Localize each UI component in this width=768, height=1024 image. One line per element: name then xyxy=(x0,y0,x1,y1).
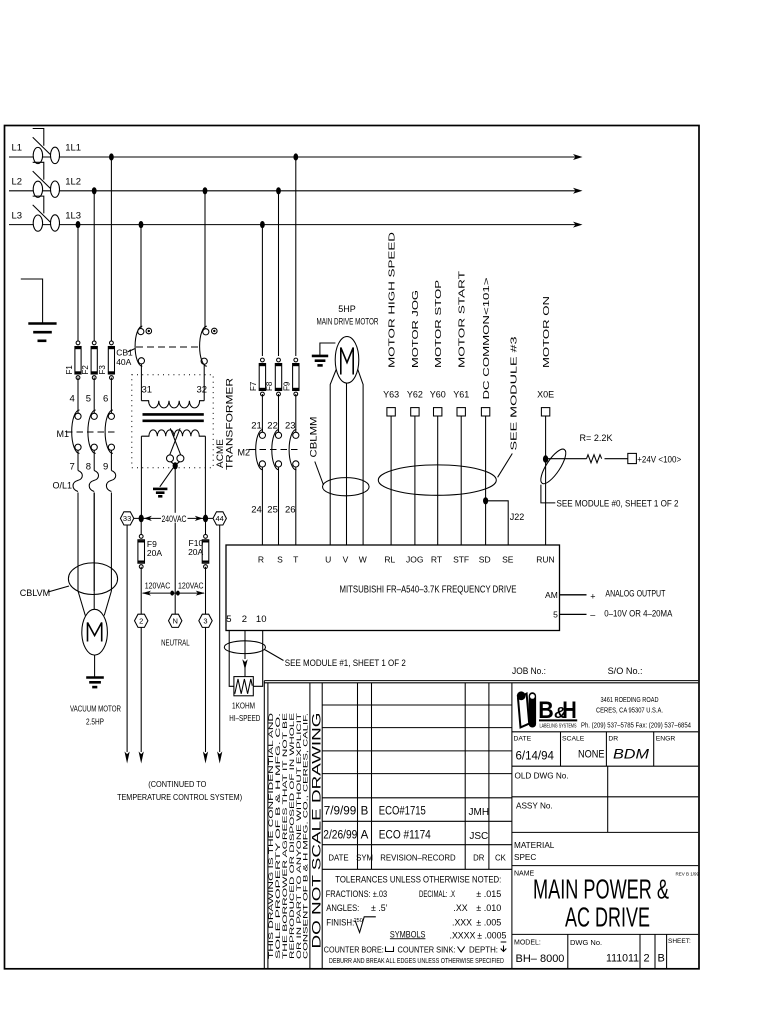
svg-text:SEE MODULE #1, SHEET 1 OF 2: SEE MODULE #1, SHEET 1 OF 2 xyxy=(285,658,406,668)
svg-text:1KOHM: 1KOHM xyxy=(232,701,255,711)
wire L2 to F8 xyxy=(278,191,280,356)
ground vacuum motor xyxy=(86,676,104,679)
transformer center tap cross xyxy=(170,428,181,455)
svg-text:SHEET:: SHEET: xyxy=(668,938,691,945)
contactor M2 pole xyxy=(259,432,265,438)
wire L3 to F1 xyxy=(77,225,79,341)
wire control terminal to drive xyxy=(414,416,416,545)
svg-text:5: 5 xyxy=(226,614,231,625)
title block frame xyxy=(264,680,698,682)
svg-text:0–10V OR 4–20MA: 0–10V OR 4–20MA xyxy=(604,609,672,619)
wire neutral from center tap xyxy=(174,468,176,614)
svg-text:CK: CK xyxy=(495,853,507,862)
svg-text:DR: DR xyxy=(473,853,485,862)
potentiometer 1KOHM HI-SPEED xyxy=(234,677,253,696)
wire M2 to drive R xyxy=(261,467,263,545)
disconnect switch pole L2 xyxy=(33,181,42,197)
arrow L2 line end xyxy=(573,188,583,194)
wire fuse to M2 xyxy=(295,394,297,432)
wire 5 analog output xyxy=(560,613,587,615)
wire node 2 down xyxy=(140,627,142,752)
junction dot (205,190) xyxy=(203,187,208,194)
wire leader see module 1 xyxy=(265,650,284,661)
svg-text:MOTOR JOG: MOTOR JOG xyxy=(411,290,420,368)
svg-text:± .015: ± .015 xyxy=(476,889,501,899)
wire motor V lead xyxy=(346,383,348,545)
disconnect switch pole L1 xyxy=(33,147,42,163)
svg-text:ASSY No.: ASSY No. xyxy=(516,802,553,811)
node N hexagon xyxy=(169,614,182,627)
svg-text:JMH: JMH xyxy=(469,807,490,818)
junction dot (78,224) xyxy=(76,221,81,228)
svg-text:BH– 8000: BH– 8000 xyxy=(516,953,565,965)
title block NAME row xyxy=(512,865,698,867)
svg-text:MOTOR HIGH SPEED: MOTOR HIGH SPEED xyxy=(387,232,396,368)
svg-text:AM: AM xyxy=(545,590,558,600)
svg-text:U: U xyxy=(325,555,331,565)
svg-text:NEUTRAL: NEUTRAL xyxy=(161,637,190,647)
arrow continued wire 3 xyxy=(203,752,208,764)
wire control terminal to drive xyxy=(437,416,439,545)
svg-text:T: T xyxy=(293,555,298,565)
svg-text:REV B 1/99: REV B 1/99 xyxy=(676,872,700,877)
wire bus to F10 xyxy=(205,518,207,534)
wire phase line L1 xyxy=(9,156,576,158)
terminal square X0E xyxy=(541,408,549,416)
svg-text:B: B xyxy=(658,953,665,965)
terminal square Y63 xyxy=(387,408,395,416)
wire M1 link (dashed) xyxy=(66,431,116,433)
junction dot (94,190) xyxy=(92,187,97,194)
svg-text:20A: 20A xyxy=(188,547,203,557)
svg-text:250: 250 xyxy=(354,918,363,924)
wire L3 to F7 xyxy=(261,225,263,356)
wire L2 to F2 xyxy=(93,191,95,341)
disconnect switch pole L3 xyxy=(33,215,42,231)
junction dot bus left xyxy=(139,515,144,523)
svg-text:V: V xyxy=(343,555,349,565)
svg-text:2/26/99: 2/26/99 xyxy=(323,829,357,841)
svg-text:TEMPERATURE CONTROL SYSTEM): TEMPERATURE CONTROL SYSTEM) xyxy=(117,792,242,802)
terminal square +24V xyxy=(628,453,637,463)
svg-text:MAIN DRIVE MOTOR: MAIN DRIVE MOTOR xyxy=(317,316,379,326)
svg-text:F3: F3 xyxy=(98,365,107,375)
wire F10 to node 3 xyxy=(205,567,207,615)
svg-text:3461 ROEDING ROAD: 3461 ROEDING ROAD xyxy=(601,695,659,704)
svg-text:± .010: ± .010 xyxy=(476,903,501,913)
svg-text:1L1: 1L1 xyxy=(65,143,81,154)
svg-text:BDM: BDM xyxy=(613,747,650,762)
wire AM analog output xyxy=(560,594,587,596)
svg-text:MOTOR START: MOTOR START xyxy=(457,271,466,368)
cable marker CBLMM oval xyxy=(323,478,370,496)
svg-text:SEE MODULE #0, SHEET 1 OF 2: SEE MODULE #0, SHEET 1 OF 2 xyxy=(557,499,679,509)
svg-text:L3: L3 xyxy=(12,210,23,221)
svg-text:(CONTINUED TO: (CONTINUED TO xyxy=(148,779,206,789)
svg-text:RT: RT xyxy=(431,555,442,565)
svg-text:W: W xyxy=(359,555,367,565)
contactor M2 pole xyxy=(275,432,281,438)
fuse F10 20A xyxy=(204,535,208,539)
contactor M1 pole xyxy=(75,413,81,419)
svg-text:F8: F8 xyxy=(265,381,274,391)
svg-text:DWG No.: DWG No. xyxy=(570,938,602,947)
svg-text:25: 25 xyxy=(267,505,278,516)
svg-text:M1: M1 xyxy=(57,429,70,439)
svg-text:L2: L2 xyxy=(12,177,23,188)
svg-text:DO NOT SCALE DRAWING: DO NOT SCALE DRAWING xyxy=(310,713,324,949)
terminal square Y62 xyxy=(411,408,419,416)
circuit breaker CB1 pole 2 xyxy=(203,329,209,335)
title block ASSY row xyxy=(512,796,698,798)
svg-text:DC COMMON<101>: DC COMMON<101> xyxy=(482,277,491,399)
node 44 hexagon xyxy=(213,512,226,525)
svg-text:L1: L1 xyxy=(12,143,23,154)
terminal square Y60 xyxy=(434,408,442,416)
wire control terminal to drive xyxy=(485,416,487,545)
svg-text:OLD DWG No.: OLD DWG No. xyxy=(515,771,569,780)
wire M2 to drive T xyxy=(295,467,297,545)
label 240VAC xyxy=(161,513,188,523)
wire node 44 down xyxy=(219,525,221,752)
fuse F8 xyxy=(277,358,281,362)
junction dot bus right xyxy=(203,515,208,523)
svg-text:120VAC: 120VAC xyxy=(145,580,171,590)
svg-text:6: 6 xyxy=(103,394,108,405)
svg-text:O/L1: O/L1 xyxy=(53,481,73,491)
svg-text:.XXX: .XXX xyxy=(452,917,472,927)
svg-text:F1: F1 xyxy=(65,365,74,375)
motor M main drive xyxy=(335,337,359,384)
title block MODEL row xyxy=(512,933,698,935)
svg-text:4: 4 xyxy=(70,394,75,405)
wire M2 to drive S xyxy=(278,467,280,545)
svg-text:26: 26 xyxy=(285,505,296,516)
svg-text:.XX: .XX xyxy=(453,903,467,913)
svg-text:32: 32 xyxy=(197,385,208,396)
svg-text:ANGLES:: ANGLES: xyxy=(326,903,359,913)
arrow L3 line end xyxy=(573,222,583,228)
wire fuse to M1 xyxy=(110,378,112,414)
svg-text:9: 9 xyxy=(103,462,108,473)
svg-text:CB1: CB1 xyxy=(116,348,133,358)
svg-text:DATE: DATE xyxy=(514,736,532,743)
title block date row xyxy=(512,731,698,733)
wire SD junction to SE xyxy=(486,501,509,545)
svg-text:31: 31 xyxy=(142,385,153,396)
transformer secondary winding xyxy=(141,430,174,436)
svg-text:F2: F2 xyxy=(81,365,90,375)
cable oval RUN wire (tilted) xyxy=(537,446,571,487)
svg-text:LABELING SYSTEMS: LABELING SYSTEMS xyxy=(540,723,577,729)
svg-text:111011: 111011 xyxy=(606,953,639,965)
svg-text:+: + xyxy=(590,592,595,602)
svg-text:2: 2 xyxy=(644,953,650,965)
svg-text:NAME: NAME xyxy=(514,871,535,878)
svg-text:40A: 40A xyxy=(116,357,131,367)
wire node 33 down xyxy=(126,525,128,752)
svg-text:ECO #1174: ECO #1174 xyxy=(379,829,432,841)
svg-text:J22: J22 xyxy=(510,512,525,522)
svg-text:± .005: ± .005 xyxy=(476,917,501,927)
svg-text:SYM: SYM xyxy=(356,853,373,862)
arrow 240VAC left xyxy=(144,516,152,521)
wire fuse to M1 xyxy=(77,378,79,414)
wire control terminal to drive xyxy=(545,416,547,545)
wire phase line L2 xyxy=(9,190,576,192)
svg-text:5: 5 xyxy=(553,610,558,620)
overload O/L1 element xyxy=(110,450,112,470)
svg-text:F7: F7 xyxy=(249,381,258,391)
wire L2 to CB1 pole 2 xyxy=(204,191,206,329)
arrow L1 line end xyxy=(573,154,583,160)
fuse F9 xyxy=(294,358,298,362)
ground main drive motor xyxy=(320,343,336,355)
svg-text:3: 3 xyxy=(203,617,207,626)
svg-text:ECO#1715: ECO#1715 xyxy=(379,806,426,818)
node 3 hexagon xyxy=(199,614,212,627)
junction dot (111,157) xyxy=(109,153,114,160)
svg-text:COUNTER SINK:: COUNTER SINK: xyxy=(398,944,456,954)
svg-text:8: 8 xyxy=(86,462,91,473)
wire fuse to M1 xyxy=(93,378,95,414)
wire leader see module 0 xyxy=(541,485,555,503)
svg-text:5: 5 xyxy=(86,394,91,405)
svg-text:Ph. (209) 537–5785 Fax: (209: Ph. (209) 537–5785 Fax: (209) 537–6854 xyxy=(581,721,691,730)
svg-text:± .0005: ± .0005 xyxy=(477,930,506,940)
wire fuse to M2 xyxy=(261,394,263,432)
svg-text:JOB No.:: JOB No.: xyxy=(512,666,546,676)
wire CB1 mechanical link (dashed) xyxy=(136,346,201,348)
svg-text:S: S xyxy=(277,555,283,565)
svg-text:STF: STF xyxy=(453,555,469,565)
fuse F9 20A xyxy=(139,535,143,539)
svg-text:FINISH:: FINISH: xyxy=(326,917,354,927)
svg-text:MODEL:: MODEL: xyxy=(514,939,541,946)
wire motor to ground xyxy=(94,655,96,677)
ground top-left xyxy=(21,279,43,323)
svg-text:SEE MODULE #3: SEE MODULE #3 xyxy=(509,336,518,451)
contactor M1 pole xyxy=(91,413,97,419)
cable marker CBLVM oval xyxy=(68,563,117,595)
terminal square Y61 xyxy=(457,408,465,416)
cable oval control wires xyxy=(378,465,496,495)
contactor M2 pole xyxy=(293,432,299,438)
wire L3 to CB1 pole 1 xyxy=(140,225,142,329)
svg-text:Y60: Y60 xyxy=(430,389,446,399)
svg-text:2: 2 xyxy=(242,614,247,625)
junction dot (262,224) xyxy=(260,221,265,228)
arrow continued wire 44 xyxy=(217,752,222,764)
wire pin 2 down xyxy=(244,631,246,659)
contactor M1 pole xyxy=(108,413,114,419)
svg-text:2: 2 xyxy=(139,617,143,626)
fuse F3 xyxy=(110,341,114,345)
svg-text:MAIN POWER &: MAIN POWER & xyxy=(533,874,669,905)
wire L1 to F3 xyxy=(110,157,112,341)
wire CB1 pole2 to primary xyxy=(203,364,205,400)
overload O/L1 element xyxy=(93,450,95,470)
svg-text:MATERIAL: MATERIAL xyxy=(514,841,555,850)
svg-text:SE: SE xyxy=(502,555,514,565)
svg-text:1L3: 1L3 xyxy=(65,210,81,221)
arrow continued wire 33 xyxy=(125,752,130,764)
wire motor U lead xyxy=(330,370,336,546)
svg-text:5HP: 5HP xyxy=(338,304,356,314)
svg-text:–: – xyxy=(590,610,595,620)
wire motor W lead xyxy=(358,370,363,546)
svg-text:SPEC: SPEC xyxy=(514,853,536,862)
wire control terminal to drive xyxy=(390,416,392,545)
junction dot (141,224) xyxy=(139,221,144,228)
title block OLD DWG row xyxy=(512,765,698,767)
svg-text:MOTOR ON: MOTOR ON xyxy=(542,296,551,368)
svg-text:F9: F9 xyxy=(283,381,292,391)
node 2 hexagon xyxy=(135,614,148,627)
wire F9 to node 2 xyxy=(140,567,142,615)
svg-text:ENGR: ENGR xyxy=(656,736,676,743)
wire motor leads xyxy=(78,591,85,616)
svg-text:10: 10 xyxy=(256,614,267,625)
svg-text:R: R xyxy=(258,555,264,565)
overload O/L1 element xyxy=(77,450,79,470)
wire fuse to M2 xyxy=(278,394,280,432)
svg-text:7: 7 xyxy=(70,462,75,473)
wire L1 to F9 xyxy=(295,157,297,356)
svg-text:S/O No.:: S/O No.: xyxy=(608,666,643,676)
ground transformer center tap xyxy=(153,488,167,491)
wire resistor to +24V xyxy=(605,458,628,460)
svg-text:MITSUBISHI FR–A540–3.7K FREQUE: MITSUBISHI FR–A540–3.7K FREQUENCY DRIVE xyxy=(340,584,517,595)
svg-text:DECIMAL: .X: DECIMAL: .X xyxy=(419,889,455,899)
wire pin 10 down xyxy=(253,631,262,687)
revision table xyxy=(322,704,512,706)
svg-text:1L2: 1L2 xyxy=(65,177,81,188)
svg-text:DEPTH:: DEPTH: xyxy=(469,944,498,954)
title block MATERIAL row xyxy=(512,831,698,833)
svg-text:RUN: RUN xyxy=(536,555,554,565)
svg-text:6/14/94: 6/14/94 xyxy=(516,751,555,763)
fuse F1 xyxy=(76,341,80,345)
fuse F7 xyxy=(261,358,265,362)
svg-text:VACUUM MOTOR: VACUUM MOTOR xyxy=(70,704,121,714)
svg-text:COUNTER BORE:: COUNTER BORE: xyxy=(324,944,384,954)
svg-text:RL: RL xyxy=(384,555,395,565)
wire to resistor xyxy=(546,458,587,460)
svg-text:33: 33 xyxy=(123,514,131,523)
svg-text:X0E: X0E xyxy=(537,389,554,399)
junction dot X0E wire xyxy=(543,455,548,462)
transformer primary winding xyxy=(141,401,204,408)
svg-text:SD: SD xyxy=(479,555,491,565)
svg-text:FRACTIONS: ±.03: FRACTIONS: ±.03 xyxy=(326,889,388,899)
svg-text:A: A xyxy=(361,829,369,841)
node 33 hexagon xyxy=(120,512,133,525)
node center tap junction xyxy=(173,462,178,469)
svg-text:24: 24 xyxy=(251,505,262,516)
svg-text:2.5HP: 2.5HP xyxy=(86,717,104,727)
wire node 3 down xyxy=(205,627,207,752)
junction dot (295,157) xyxy=(293,153,298,160)
svg-text:44: 44 xyxy=(216,514,224,523)
svg-text:.XXXX: .XXXX xyxy=(450,930,476,940)
svg-text:N: N xyxy=(172,617,177,626)
wire 240VAC bus xyxy=(134,517,213,519)
svg-text:DR: DR xyxy=(608,736,618,743)
svg-text:B: B xyxy=(361,806,369,818)
svg-text:7/9/99: 7/9/99 xyxy=(324,806,357,818)
svg-text:DATE: DATE xyxy=(328,853,348,862)
svg-text:CERES, CA 95307 U.S.A.: CERES, CA 95307 U.S.A. xyxy=(596,705,663,714)
svg-text:MOTOR STOP: MOTOR STOP xyxy=(434,279,443,368)
junction dot (278,190) xyxy=(276,187,281,194)
svg-text:240VAC: 240VAC xyxy=(162,514,187,524)
svg-text:R= 2.2K: R= 2.2K xyxy=(580,433,613,443)
frequency drive MITSUBISHI FR-A540-3.7K box xyxy=(226,545,560,631)
svg-text:± .5’: ± .5’ xyxy=(371,903,388,913)
svg-text:SYMBOLS: SYMBOLS xyxy=(390,929,426,939)
svg-text:JSC: JSC xyxy=(469,831,488,842)
svg-text:AC DRIVE: AC DRIVE xyxy=(565,902,650,933)
svg-text:TOLERANCES UNLESS OTHERWISE NO: TOLERANCES UNLESS OTHERWISE NOTED: xyxy=(335,875,501,885)
svg-text:CBLVM: CBLVM xyxy=(20,588,50,598)
wire center tap to ground xyxy=(160,468,173,487)
svg-text:22: 22 xyxy=(267,421,278,432)
wire phase line L3 xyxy=(9,224,576,226)
svg-text:M2: M2 xyxy=(238,447,251,457)
wire control terminal to drive xyxy=(460,416,462,545)
wire CB1 pole1 to primary xyxy=(140,364,142,401)
arrow continued wire 2 xyxy=(139,752,144,764)
svg-text:NONE: NONE xyxy=(578,749,605,761)
circuit breaker CB1 pole 1 xyxy=(138,329,144,335)
junction dot SD wire xyxy=(483,497,488,504)
motor M vacuum xyxy=(82,609,108,655)
wire bus to F9 xyxy=(140,518,142,534)
wire M2 link (dashed) xyxy=(249,449,300,451)
drawing border xyxy=(5,126,700,969)
svg-text:SCALE: SCALE xyxy=(562,736,585,743)
svg-text:20A: 20A xyxy=(147,548,162,558)
logo B&H xyxy=(268,683,699,969)
svg-text:21: 21 xyxy=(251,421,262,432)
svg-text:Y61: Y61 xyxy=(453,389,469,399)
transformer ACME dotted enclosure xyxy=(132,375,213,468)
svg-text:Y62: Y62 xyxy=(407,389,423,399)
wire pin 5 down xyxy=(229,631,234,687)
wire secondary left leg xyxy=(140,436,142,517)
transformer core xyxy=(143,413,204,416)
terminal square DC xyxy=(481,408,489,416)
svg-text:ANALOG OUTPUT: ANALOG OUTPUT xyxy=(605,589,665,599)
cable oval 5/2/10 xyxy=(224,641,265,654)
arrow wiper pin 2 xyxy=(242,659,247,670)
arrow 240VAC right xyxy=(195,516,203,521)
svg-text:+24V <100>: +24V <100> xyxy=(637,454,681,464)
svg-text:DEBURR AND BREAK ALL EDGES UNL: DEBURR AND BREAK ALL EDGES UNLESS OTHERW… xyxy=(329,956,504,965)
svg-text:Y63: Y63 xyxy=(383,389,399,399)
svg-text:REVISION–RECORD: REVISION–RECORD xyxy=(380,853,456,862)
resistor R=2.2K xyxy=(587,455,602,463)
fuse F2 xyxy=(92,341,96,345)
svg-text:TRANSFORMER: TRANSFORMER xyxy=(224,378,235,470)
svg-text:120VAC: 120VAC xyxy=(178,580,204,590)
dimension 120VAC line xyxy=(143,592,205,594)
svg-text:CBLMM: CBLMM xyxy=(308,417,318,458)
wire secondary right leg xyxy=(204,436,206,517)
svg-text:HI–SPEED: HI–SPEED xyxy=(229,713,260,723)
svg-text:JOG: JOG xyxy=(406,555,423,565)
